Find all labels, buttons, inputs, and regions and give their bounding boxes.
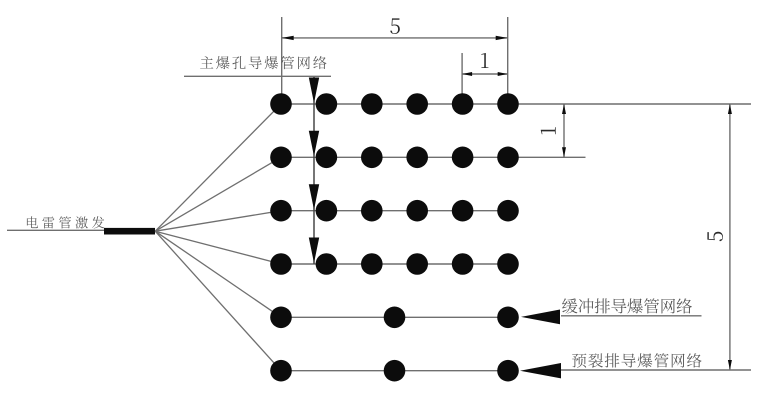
blast hole r2c1 <box>270 147 292 169</box>
main label underline <box>184 75 331 77</box>
blast hole r1c1 <box>270 93 292 115</box>
dim text 1 rotated <box>541 127 556 134</box>
blast hole r2c2 <box>316 147 338 169</box>
blast hole r4c2 <box>316 253 338 275</box>
label: buffer row det-cord network <box>562 298 692 313</box>
blast hole r6c2 <box>384 360 406 382</box>
lead wire <box>7 229 104 231</box>
blast hole r2c6 <box>497 147 519 169</box>
blast hole r4c5 <box>452 253 474 275</box>
label: presplit row det-cord network <box>572 353 701 368</box>
fan wire to row 1 <box>155 104 281 231</box>
blast hole r4c1 <box>270 253 292 275</box>
blast hole r5c3 <box>497 307 519 329</box>
blast hole r3c3 <box>361 200 383 222</box>
buffer row arrow <box>521 310 560 325</box>
row 3 line <box>281 210 508 212</box>
vertical dim 5 (right) <box>729 104 731 370</box>
dim text 1 top <box>481 53 488 68</box>
blast hole r1c4 <box>406 93 428 115</box>
label: main blast-hole det-cord network <box>200 56 326 69</box>
blast hole r3c2 <box>316 200 338 222</box>
blast hole r1c5 <box>452 93 474 115</box>
blast hole r1c6 <box>497 93 519 115</box>
blast hole r6c1 <box>270 360 292 382</box>
blast hole r3c6 <box>497 200 519 222</box>
blast hole r1c2 <box>316 93 338 115</box>
vertical dim 1 (right) <box>563 104 565 157</box>
blast hole r1c3 <box>361 93 383 115</box>
fan wire to row 6 <box>155 231 281 371</box>
presplit row label line <box>561 369 751 371</box>
fan wire to row 4 <box>155 231 281 264</box>
blast hole r3c4 <box>406 200 428 222</box>
trunk arrow <box>309 78 319 104</box>
trunk arrow <box>309 131 319 157</box>
fan wire to row 2 <box>155 157 281 231</box>
row 2 line <box>281 156 586 158</box>
extension line left of dim 5 <box>281 17 283 104</box>
row 5 line <box>281 316 508 318</box>
row 6 line <box>281 370 508 372</box>
trunk arrow <box>309 184 319 210</box>
blast hole r2c5 <box>452 147 474 169</box>
extension line left of dim 1 <box>461 53 463 104</box>
dim text 5 top <box>390 18 400 34</box>
fan wire to row 3 <box>155 211 281 232</box>
buffer row label line <box>561 315 702 317</box>
row 4 line <box>281 263 508 265</box>
extension line right of dim 5 <box>507 17 509 104</box>
blast hole r5c1 <box>270 307 292 329</box>
presplit row arrow <box>520 363 561 378</box>
blast hole r2c3 <box>361 147 383 169</box>
blast hole r3c1 <box>270 200 292 222</box>
blast hole r4c4 <box>406 253 428 275</box>
label: electric detonator initiation <box>27 216 104 228</box>
detonating tube trunk line <box>313 76 315 264</box>
detonator bar <box>104 228 155 235</box>
dim text 5 rotated <box>707 232 723 242</box>
dimension line 5 (top) <box>282 37 508 39</box>
blast hole r2c4 <box>406 147 428 169</box>
trunk arrow <box>309 238 319 264</box>
blast hole r3c5 <box>452 200 474 222</box>
blast hole r5c2 <box>384 307 406 329</box>
row 1 line <box>281 103 751 105</box>
dimension line 1 (top) <box>462 73 508 75</box>
blast hole r4c6 <box>497 253 519 275</box>
blast hole r6c3 <box>497 360 519 382</box>
blast hole r4c3 <box>361 253 383 275</box>
fan wire to row 5 <box>155 231 281 317</box>
